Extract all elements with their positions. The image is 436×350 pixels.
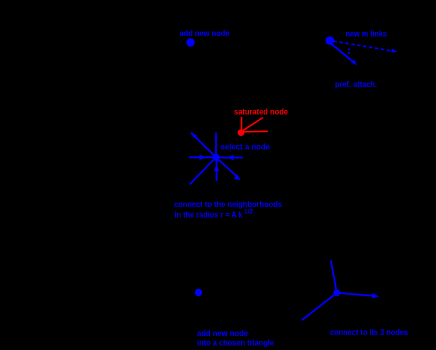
node: vertical ellipsis between links [348,49,350,51]
wire: star ray down-right [216,157,239,178]
svg-text:add new node: add new node [197,329,249,338]
wire: solid link arrow (pref. attach.) [332,44,355,63]
svg-text:connect to its 3 nodes: connect to its 3 nodes [330,328,408,337]
node: arrowhead on up-left ray end (outward) [191,132,197,138]
node: selected node (star center disc) [212,154,219,161]
wire: star ray down-left [190,157,217,184]
wire: red stub diagonal [243,118,263,131]
svg-text:connect to the neighborhoods: connect to the neighborhoods [174,199,282,209]
wire: star ray down [216,157,218,181]
wire: Y branch down-left [302,293,337,321]
node: arrowhead on down ray (pointing to center) [214,165,219,172]
wire: star ray right [216,157,243,159]
wire: dashed link arrow to far node [334,41,395,51]
node: arrowhead on right ray (pointing to center) [227,155,234,160]
svg-text:1/2: 1/2 [244,210,254,216]
svg-text:saturated node: saturated node [234,107,289,116]
wire: Y branch right (arrow) [337,293,374,296]
svg-text:pref. attach.: pref. attach. [335,79,377,89]
wire: Y branch up [331,260,337,293]
svg-text:new m links: new m links [346,29,388,39]
svg-text:into a chosen triangle: into a chosen triangle [197,338,275,347]
node: arrowhead on left ray (pointing to center) [200,155,207,160]
node: arrowhead on down-right ray end (outward) [234,174,241,180]
node: new node (top right blue disc) [326,36,335,45]
wire: star ray up-left [191,133,216,158]
node: saturated node (red disc) [238,129,245,136]
wire: red stub up [241,117,243,130]
node: triangle centre node (Y disc) [333,289,340,296]
node: new node (top left blue disc) [186,38,194,46]
svg-text:add new node: add new node [180,28,230,38]
svg-text:in the radius r = A k: in the radius r = A k [175,210,243,220]
svg-text:select a node: select a node [221,143,271,152]
node: new node (bottom left blue disc) [195,289,202,296]
wire: star ray left [189,156,216,158]
wire: star ray up [215,133,217,158]
wire: red stub right [244,130,268,133]
